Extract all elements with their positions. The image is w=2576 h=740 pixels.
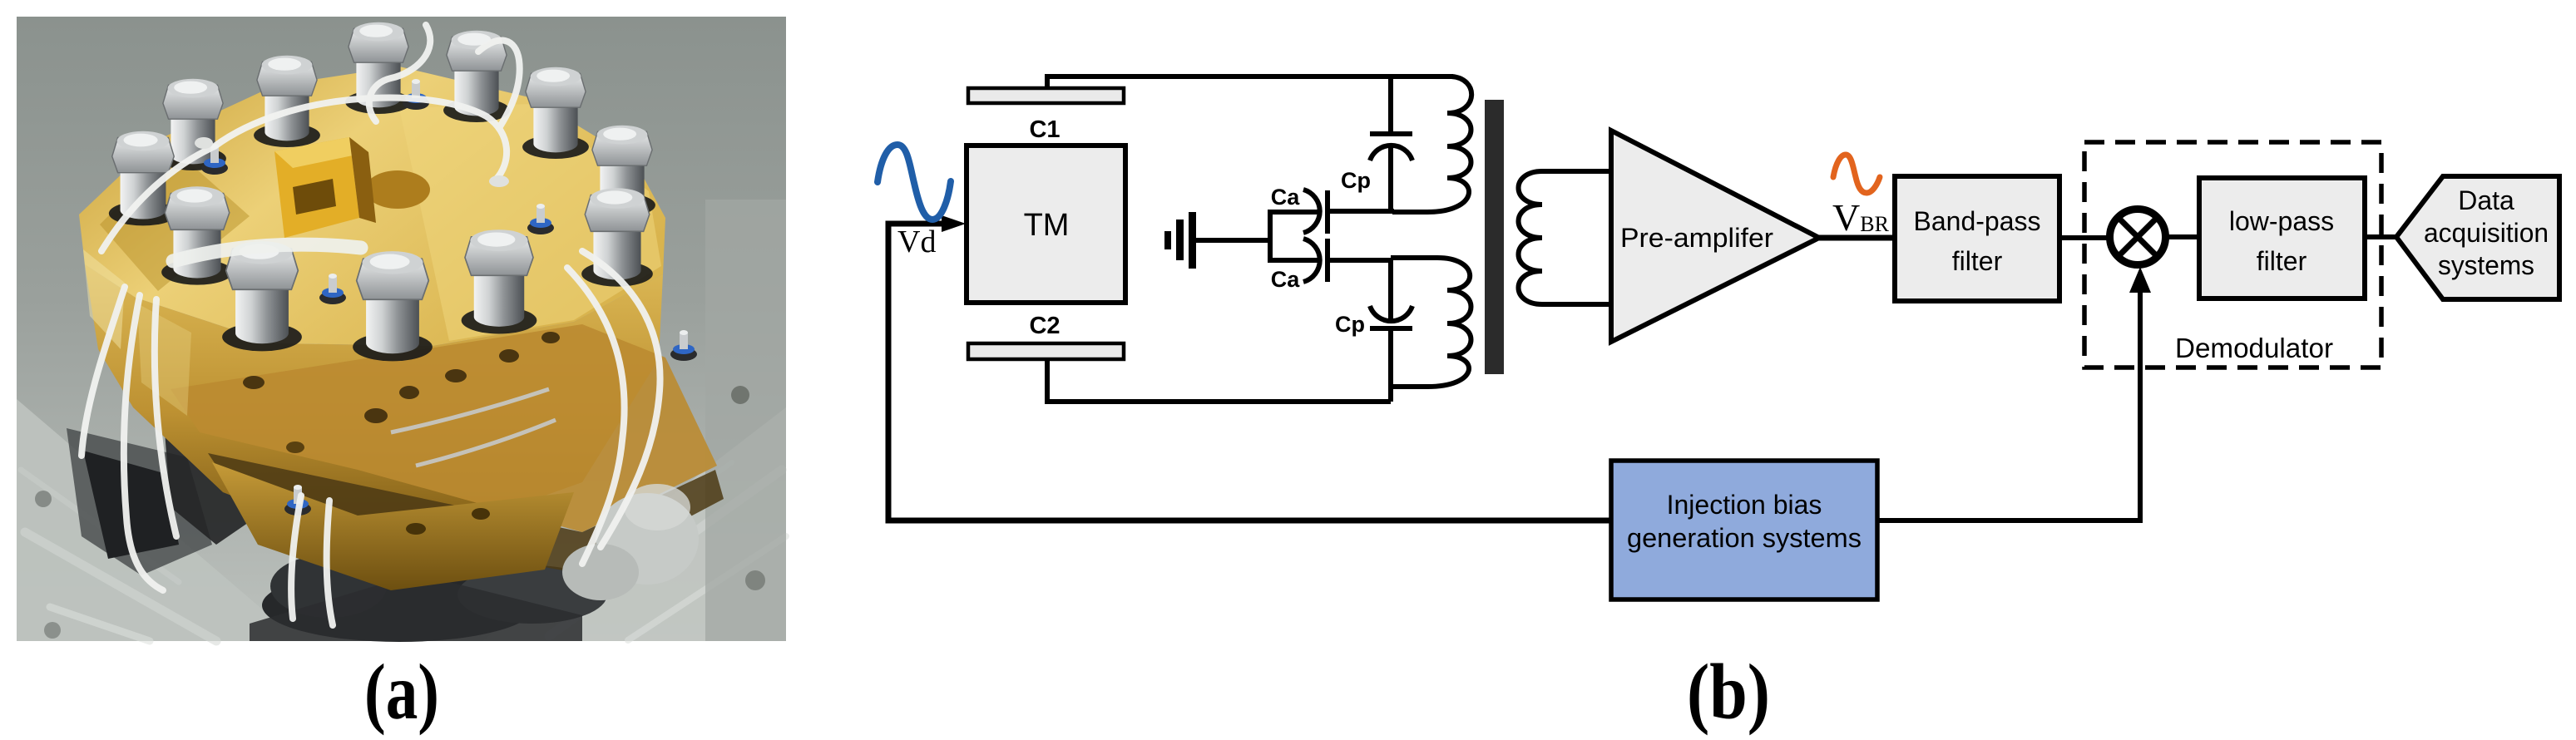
big hex feed-through bolts <box>160 79 226 170</box>
svg-text:filter: filter <box>2257 246 2307 276</box>
data acquisition pentagon <box>2396 176 2559 299</box>
wire: upper Ca to top tank node <box>1328 209 1394 214</box>
wire: band-pass filter to mixer <box>2059 235 2110 240</box>
wire: low-pass filter to data acquisition <box>2365 234 2396 239</box>
svg-text:Injection bias: Injection bias <box>1667 490 1822 520</box>
demodulator dashed boundary <box>2084 142 2381 368</box>
mixer (demodulating multiplier) <box>2110 210 2166 265</box>
svg-text:Band-pass: Band-pass <box>1914 206 2041 236</box>
svg-text:Data: Data <box>2458 185 2514 215</box>
dark objects at lower left / shadow under device <box>67 428 212 575</box>
wire: pre-amp output to band-pass filter <box>1819 235 1895 241</box>
svg-text:Pre-amplifer: Pre-amplifer <box>1620 223 1773 253</box>
ground <box>1164 212 1196 269</box>
TM test-mass box <box>967 146 1125 303</box>
svg-text:(a): (a) <box>364 648 439 736</box>
central gold block and oval hole in top face <box>365 170 430 209</box>
svg-text:Cp: Cp <box>1335 312 1365 337</box>
transformer primary coil (lower half) <box>1391 258 1471 387</box>
band-pass filter box <box>1895 176 2059 301</box>
wire: lower Ca to bottom tank node <box>1328 258 1391 263</box>
gold hexagonal body <box>79 67 665 346</box>
svg-text:C2: C2 <box>1029 313 1060 339</box>
svg-text:filter: filter <box>1952 246 2003 276</box>
svg-text:TM: TM <box>1024 208 1070 243</box>
svg-text:acquisition: acquisition <box>2424 218 2549 248</box>
wire: ground to Ca bridge <box>1196 238 1270 243</box>
transformer primary coil (upper half) <box>1392 76 1471 212</box>
holes in perforated band <box>243 376 265 389</box>
svg-text:generation systems: generation systems <box>1627 523 1862 553</box>
transformer secondary coil <box>1519 171 1612 304</box>
low-pass filter box <box>2199 178 2365 298</box>
bright glints on left face <box>83 249 125 349</box>
arrowhead into mixer <box>2129 267 2151 293</box>
wire: Vd input line down-left and bottom feedback run <box>888 224 1611 520</box>
capacitor Ca (upper actuation) <box>1303 190 1320 233</box>
white PTFE wiring <box>82 25 660 625</box>
svg-text:C1: C1 <box>1029 116 1060 143</box>
capacitor Cp (lower parasitic) <box>1388 258 1393 322</box>
op-amp U1 pre-amplifier triangle <box>1611 131 1819 342</box>
capacitor plate C1 (upper electrode) <box>968 88 1124 103</box>
svg-text:(b): (b) <box>1687 648 1770 736</box>
wire: Ca bridge bracket <box>1268 212 1318 260</box>
injection bias generation box <box>1611 461 1877 599</box>
svg-text:Cp: Cp <box>1341 168 1371 193</box>
source sine Vd (blue) <box>878 145 951 220</box>
svg-text:low-pass: low-pass <box>2229 206 2334 236</box>
wire: C2 plate to bottom tank return <box>1047 358 1391 402</box>
capacitor Ca (lower actuation) <box>1303 239 1320 282</box>
small screws with blue collars <box>201 144 228 175</box>
svg-text:VBR: VBR <box>1832 196 1890 239</box>
svg-text:Vd: Vd <box>897 224 936 259</box>
source sine VBR (orange) <box>1833 155 1880 193</box>
capacitor Cp (upper parasitic) <box>1388 76 1393 134</box>
svg-text:Demodulator: Demodulator <box>2175 333 2333 363</box>
wire: mixer to low-pass filter <box>2166 234 2199 239</box>
wire: injection box output to mixer LO port <box>1877 293 2140 520</box>
svg-text:Ca: Ca <box>1271 267 1300 292</box>
transformer core <box>1485 100 1504 374</box>
arrowhead into TM <box>942 215 966 232</box>
wire: C1 plate to top tank <box>1047 76 1453 90</box>
panel (a): photograph of gold torsion-pendulum sensor head <box>17 17 786 642</box>
capacitor plate C2 (lower electrode) <box>968 343 1124 359</box>
svg-text:Ca: Ca <box>1271 185 1300 210</box>
svg-text:systems: systems <box>2438 250 2534 280</box>
